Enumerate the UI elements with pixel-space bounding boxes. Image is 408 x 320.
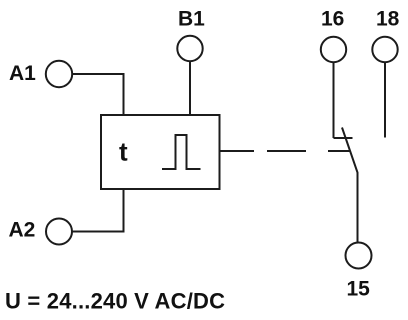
wire 18 <box>384 63 386 138</box>
svg-text:A1: A1 <box>9 62 36 85</box>
svg-text:U = 24...240 V AC/DC: U = 24...240 V AC/DC <box>5 289 225 314</box>
terminal A2 <box>46 219 72 245</box>
terminal 16 <box>321 37 346 62</box>
wire box to A2 <box>73 189 124 232</box>
svg-text:B1: B1 <box>178 8 205 31</box>
timer box U1 <box>101 115 220 189</box>
terminal A1 <box>46 61 72 87</box>
svg-text:18: 18 <box>376 8 400 31</box>
contact lever 15 <box>342 128 358 243</box>
svg-text:A2: A2 <box>9 219 36 242</box>
wire 16 <box>333 63 335 139</box>
terminal 18 <box>372 37 397 62</box>
wire A1 to box <box>73 74 124 115</box>
svg-text:16: 16 <box>321 8 344 31</box>
svg-text:t: t <box>119 137 128 167</box>
svg-text:15: 15 <box>347 278 371 301</box>
fixed contact 16 tick <box>334 137 353 139</box>
dashed actuator line <box>221 150 351 152</box>
pulse symbol <box>162 135 201 169</box>
terminal B1 <box>177 36 202 61</box>
terminal 15 <box>346 243 372 269</box>
wire B1 to box <box>189 62 191 116</box>
